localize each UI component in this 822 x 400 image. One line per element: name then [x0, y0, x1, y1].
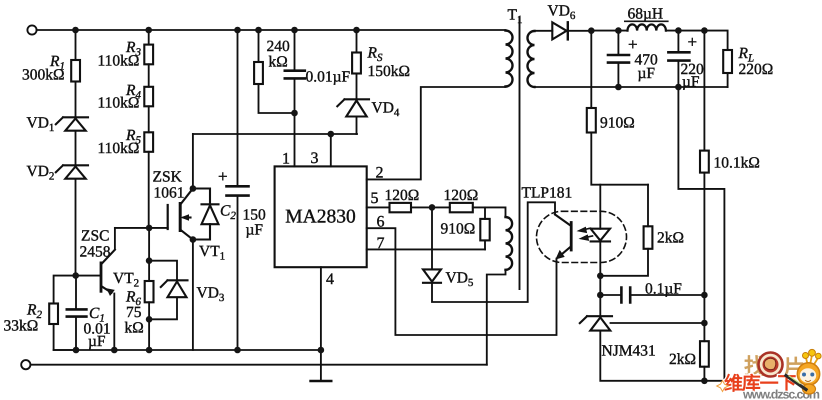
- watermark dzsc.com: [717, 349, 821, 400]
- svg-text:10.1kΩ: 10.1kΩ: [714, 155, 760, 172]
- wire: R1 top lead: [75, 30, 77, 60]
- svg-text:1061: 1061: [154, 185, 185, 202]
- node: VT1 source: [190, 236, 197, 243]
- capacitor 0.01u (top): [285, 71, 305, 79]
- wire: 0.1uF right lead: [631, 294, 705, 296]
- node: secondary bottom rail: [615, 84, 622, 91]
- wire: 120R to aux winding top: [473, 207, 506, 217]
- resistor 120R (first): [390, 203, 412, 212]
- resistor R5 110k: [144, 132, 153, 152]
- wire: base node to VT2 base: [76, 275, 101, 277]
- wire: VT2 emitter riser: [113, 294, 115, 351]
- svg-text:4: 4: [326, 271, 334, 288]
- svg-text:910Ω: 910Ω: [441, 221, 476, 238]
- svg-text:VD6: VD6: [548, 3, 576, 23]
- node: bottom rail junctions: [73, 347, 80, 354]
- optocoupler U2 TLP181 dashed capsule: [537, 211, 627, 262]
- svg-text:7: 7: [377, 235, 385, 252]
- svg-text:3: 3: [311, 150, 319, 167]
- wire: pin 4 lead to bottom rail: [320, 267, 322, 350]
- wire: output sense link from 220uF node: [678, 87, 724, 381]
- wire: VT1 drain riser: [192, 134, 194, 189]
- wire: Rs top lead: [356, 30, 358, 53]
- capacitor 220u: [668, 52, 689, 60]
- wire: VT1 gate chain (to pin3 and VD4): [193, 133, 357, 135]
- wire: 120R link: [411, 206, 450, 208]
- node: pin3 / VD4: [328, 131, 335, 138]
- wire: R3 chain top lead: [148, 30, 150, 45]
- svg-text:2: 2: [376, 165, 384, 182]
- svg-text:NJM431: NJM431: [602, 343, 656, 360]
- svg-text:68µH: 68µH: [628, 6, 664, 23]
- shunt regulator NJM431: [580, 316, 612, 330]
- wire: gate node down to R6 node: [148, 228, 150, 261]
- node: rectified output: [588, 27, 595, 34]
- zener VD3: [161, 280, 188, 297]
- svg-text:ZSK: ZSK: [153, 169, 183, 186]
- svg-text:T1: T1: [508, 7, 523, 27]
- resistor 910R (left): [480, 219, 489, 241]
- wire: primary bottom rail: [54, 349, 321, 351]
- wire: C1 top lead: [75, 276, 77, 309]
- mascot: [717, 349, 821, 394]
- capacitor 0.1u: [621, 288, 630, 303]
- svg-text:µF: µF: [88, 333, 106, 350]
- wire: 2k lower bottom lead: [703, 367, 705, 381]
- node: VT1 drain: [190, 185, 197, 192]
- svg-text:300kΩ: 300kΩ: [22, 67, 65, 84]
- svg-text:RS: RS: [367, 45, 383, 65]
- wire: 0.01uF bottom / pin 1 lead: [294, 79, 296, 167]
- resistor 2k (upper): [644, 226, 653, 249]
- wire: top rail from input 1 to transformer primary: [37, 29, 506, 31]
- svg-text:ZSC: ZSC: [81, 228, 109, 245]
- wire: pin 3 lead: [330, 134, 332, 166]
- transformer T1 secondary winding: [528, 31, 535, 87]
- zener VD4: [337, 99, 369, 116]
- svg-text:5: 5: [371, 190, 379, 207]
- wire: 0.01uF top lead: [294, 30, 296, 71]
- resistor 2k (lower): [700, 341, 709, 367]
- resistor R6 75k: [145, 281, 154, 302]
- svg-text:33kΩ: 33kΩ: [4, 318, 39, 335]
- ground: [320, 350, 322, 381]
- svg-text:120Ω: 120Ω: [444, 187, 479, 204]
- svg-text:220Ω: 220Ω: [739, 61, 774, 78]
- svg-text:µF: µF: [246, 222, 264, 239]
- node: VT2 base: [72, 272, 79, 279]
- transformer T1 core: [519, 18, 521, 290]
- mosfet VT1 ZSK1061: [168, 189, 193, 240]
- wire: 910R left top lead: [484, 207, 486, 219]
- wire: NJM431 ref wire: [611, 322, 705, 324]
- wire: Rs to VD4: [356, 74, 358, 100]
- input terminal 1 (top left): [27, 25, 36, 34]
- optocoupler phototransistor: [555, 215, 571, 259]
- svg-text:VD3: VD3: [197, 285, 225, 305]
- body diode of VT1: [193, 189, 219, 240]
- svg-text:2kΩ: 2kΩ: [669, 351, 696, 368]
- svg-text:240: 240: [267, 38, 291, 55]
- capacitor C2 150u: [227, 186, 249, 195]
- node: ref divider: [701, 320, 708, 327]
- node: VT2 collector / R-chain: [146, 225, 153, 232]
- wire: pin 7 to VD5 / 910R: [367, 248, 485, 250]
- wire: RL bottom lead: [727, 73, 729, 87]
- svg-text:µF: µF: [638, 65, 656, 82]
- node: LED cathode / 2k: [597, 273, 604, 280]
- resistor Rs 150k: [352, 53, 361, 74]
- svg-text:+: +: [218, 167, 228, 186]
- svg-text:TLP181: TLP181: [522, 185, 573, 202]
- node: 120R junction: [429, 204, 436, 211]
- transistor VT2 ZSC2458: [101, 250, 115, 295]
- wire: 68uH to RL top: [666, 31, 728, 50]
- wire: VD5 anode lead from 120R junction: [431, 207, 433, 269]
- wire: 10.1k top lead: [703, 31, 705, 151]
- wire: pin 5 lead: [367, 206, 390, 208]
- wire: 240k top lead: [258, 30, 260, 62]
- resistor R2 33k: [49, 304, 58, 325]
- svg-text:µF: µF: [682, 74, 700, 91]
- wire: 910R left bottom lead: [484, 240, 486, 249]
- wire: R2 bottom lead: [54, 324, 76, 350]
- svg-text:910Ω: 910Ω: [600, 115, 635, 132]
- wire: 910R right top lead: [590, 31, 592, 108]
- zener VD1: [56, 117, 88, 130]
- wire: 240k bottom to pin1 node: [259, 84, 295, 113]
- svg-text:0.01µF: 0.01µF: [306, 69, 351, 86]
- diode VD5: [423, 269, 441, 282]
- wire: C2 bottom lead: [237, 196, 239, 350]
- wire: R6 node to bottom rail: [148, 319, 150, 350]
- wire: VD1 to VD2: [75, 131, 77, 165]
- wire: aux winding bottom to input line: [487, 270, 506, 365]
- wire: C2 top lead: [237, 30, 239, 186]
- wire: 2k upper leads: [647, 185, 649, 227]
- wire: secondary top to VD6: [535, 30, 553, 32]
- transformer T1 primary winding: [506, 31, 513, 87]
- svg-text:1: 1: [282, 151, 290, 168]
- wire: VT2 collector to VT1 gate: [115, 227, 168, 229]
- svg-text:VD2: VD2: [27, 163, 55, 183]
- wire: R1 bottom to VD1: [75, 82, 77, 118]
- resistor R1 300k: [71, 60, 80, 82]
- svg-text:2kΩ: 2kΩ: [657, 230, 684, 247]
- svg-text:VT2: VT2: [113, 270, 139, 290]
- wire: 10.1k bottom to 2k lower: [703, 173, 705, 342]
- wire: LED anode lead: [599, 185, 601, 229]
- node: top rail junctions: [72, 27, 79, 34]
- wire: VT2 collector riser: [114, 228, 116, 249]
- optocoupler LED: [578, 227, 610, 241]
- wire: secondary bottom rail: [535, 86, 728, 88]
- wire: 910R right bottom to LED / 2k node: [591, 133, 648, 185]
- resistor R3 110k: [144, 45, 153, 65]
- svg-text:150kΩ: 150kΩ: [368, 63, 411, 80]
- node: pin1 / 240k: [291, 110, 298, 117]
- wire: R4-R5 link: [148, 106, 150, 132]
- svg-text:C2: C2: [220, 203, 236, 223]
- transformer T1 aux winding: [506, 217, 513, 270]
- svg-text:kΩ: kΩ: [269, 54, 288, 71]
- svg-text:MA2830: MA2830: [285, 207, 355, 228]
- wire: 470uF leads: [617, 31, 619, 55]
- svg-text:2458: 2458: [80, 244, 111, 261]
- svg-text:kΩ: kΩ: [125, 320, 144, 337]
- svg-text:6: 6: [377, 214, 385, 231]
- wire: R3-R4 link: [148, 64, 150, 87]
- resistor 10.1k: [700, 151, 709, 173]
- node: divider / 0.1uF right: [701, 292, 708, 299]
- svg-text:VD5: VD5: [446, 270, 474, 290]
- capacitor 470u: [608, 55, 629, 63]
- svg-text:110kΩ: 110kΩ: [98, 53, 140, 70]
- 68uH underline: [625, 20, 668, 22]
- inductor 68uH: [628, 24, 666, 30]
- wire: LED cathode chain down to NJM431: [599, 242, 601, 317]
- input terminal 2 (bottom left): [21, 360, 30, 369]
- node: R6 bottom: [146, 316, 153, 323]
- wire: 0.1uF left lead: [600, 294, 621, 296]
- wire: top rail rectifier node to 68uH: [591, 30, 627, 32]
- wire: R6 top node to VD3: [149, 261, 177, 280]
- IC U1 MA2830: [275, 166, 367, 267]
- svg-text:VD4: VD4: [372, 100, 400, 120]
- wire: R6 bottom lead: [148, 302, 150, 319]
- wire: VD6 cathode to rectifier node: [568, 30, 591, 32]
- capacitor C1 0.01u: [67, 309, 87, 316]
- wire: C1 bottom lead: [75, 317, 77, 350]
- svg-text:VT1: VT1: [199, 243, 225, 263]
- resistor RL 220R: [723, 50, 732, 73]
- wire: NJM431 anode to bottom bus: [600, 331, 724, 381]
- svg-text:0.1µF: 0.1µF: [645, 281, 682, 298]
- diode VD6: [552, 22, 568, 39]
- svg-text:+: +: [688, 33, 698, 52]
- svg-text:110kΩ: 110kΩ: [98, 95, 140, 112]
- wire: R6 top lead: [148, 261, 150, 281]
- wire: pin 6 to optocoupler emitter: [367, 228, 557, 335]
- wire: VD2 to VT2 base node: [75, 179, 77, 276]
- resistor 120R (second): [450, 203, 473, 212]
- wire: R2 top lead: [54, 276, 76, 304]
- wire: VD5 cathode to phototransistor collector: [432, 202, 555, 302]
- wire: bottom input line: [30, 364, 486, 366]
- svg-text:120Ω: 120Ω: [385, 187, 420, 204]
- zener VD2: [56, 165, 88, 178]
- wire: VD4 bottom lead: [356, 117, 358, 135]
- svg-text:VD1: VD1: [27, 115, 55, 135]
- node: R6 top: [146, 257, 153, 264]
- svg-text:110kΩ: 110kΩ: [98, 140, 140, 157]
- node: 2k lower bottom: [701, 378, 708, 385]
- wire: R5 bottom to gate wire: [148, 152, 150, 228]
- node: NJM431 cathode / 0.1uF: [597, 292, 604, 299]
- wire: VT1 source to bottom rail: [192, 240, 194, 351]
- wire: VD3 bottom link: [149, 298, 177, 320]
- resistor R4 110k: [144, 87, 153, 107]
- wire: 220uF leads: [677, 31, 679, 53]
- svg-text:75: 75: [126, 304, 142, 321]
- resistor 240k: [254, 62, 263, 84]
- resistor 910R (right): [587, 108, 596, 133]
- wire: pin 2 to transformer primary bottom: [367, 87, 506, 179]
